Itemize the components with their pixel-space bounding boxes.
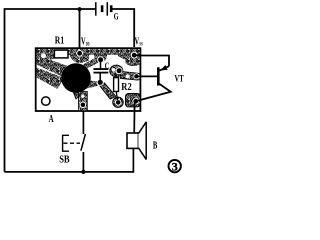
wire left side loop (5, 9, 96, 172)
copper trace to switch pad (72, 88, 88, 112)
wire board to switch (82, 111, 84, 134)
copper diagonal to pad4 (99, 83, 116, 99)
battery G (96, 2, 113, 16)
svg-text:VT: VT (175, 74, 185, 84)
copper diagonal blob to C pad (83, 57, 101, 69)
IC blob (61, 63, 91, 93)
svg-text:G: G (114, 13, 119, 23)
copper bar to base lead (121, 71, 141, 80)
junction dot top (77, 7, 81, 11)
circuit board A outline (36, 48, 141, 111)
transistor bar (157, 67, 160, 85)
wire top right from battery (112, 9, 134, 47)
copper diagonal D1 left (37, 55, 69, 78)
copper pad Vdd (68, 49, 90, 63)
copper horn widening (118, 54, 126, 60)
transistor VT emitter-top diagonal with arrow (160, 66, 170, 70)
solder dot pad5 speaker (132, 98, 139, 105)
svg-text:R1: R1 (55, 36, 64, 47)
wire bottom (5, 171, 134, 173)
solder dot C bottom (97, 79, 104, 86)
svg-text:SS: SS (139, 42, 143, 47)
wire switch to bottom (82, 152, 84, 172)
copper diagonal D2 left (37, 68, 64, 90)
solder dot C top (97, 56, 104, 63)
solder dot R2 top (116, 67, 123, 74)
speaker B cone (138, 122, 146, 159)
solder dot switch pad (80, 102, 87, 109)
hole right-middle (126, 74, 130, 78)
hole R2 pad left (112, 68, 116, 72)
resistor R2 body (114, 78, 119, 92)
copper pad R2 top (110, 65, 123, 77)
speaker B body (127, 133, 138, 148)
solder dot Vss (131, 52, 138, 59)
copper pad Vss (125, 49, 140, 66)
copper pad5 bottom right (126, 94, 141, 107)
switch SB lever (81, 134, 86, 151)
switch dashed link (64, 142, 81, 144)
solder dot base (133, 73, 139, 79)
hole switch trace (81, 95, 84, 98)
hole near C (105, 60, 109, 64)
svg-text:R2: R2 (121, 82, 131, 93)
svg-text:3: 3 (172, 160, 178, 174)
copper trace blob right bottom (86, 80, 98, 88)
solder dot pad4 (115, 99, 121, 105)
capacitor C plates (94, 68, 109, 70)
wire board to speaker (133, 103, 135, 133)
transistor base lead (137, 75, 158, 77)
switch SB button bracket (63, 135, 69, 151)
svg-text:SB: SB (59, 155, 70, 166)
svg-text:C: C (105, 62, 110, 72)
mounting hole (42, 97, 50, 105)
solder dot Vdd (76, 50, 83, 57)
transistor emitter bottom (136, 83, 171, 101)
svg-text:A: A (49, 114, 55, 125)
svg-text:B: B (153, 141, 157, 152)
resistor R1 body (54, 50, 68, 58)
copper pad top-left corner (37, 49, 55, 60)
wire Vdd drop (79, 9, 81, 52)
copper top band (37, 49, 140, 55)
svg-text:DD: DD (86, 42, 90, 47)
transistor VT collector wire (137, 55, 170, 66)
hole top-left pad (41, 53, 46, 58)
figure number 3 (169, 160, 181, 172)
wire speaker to bottom (132, 148, 134, 172)
copper pad4 (113, 97, 124, 107)
junction dot bottom (81, 170, 85, 174)
R2 bottom lead (116, 74, 118, 100)
copper pad C top (94, 49, 107, 62)
capacitor C leads (99, 61, 101, 81)
